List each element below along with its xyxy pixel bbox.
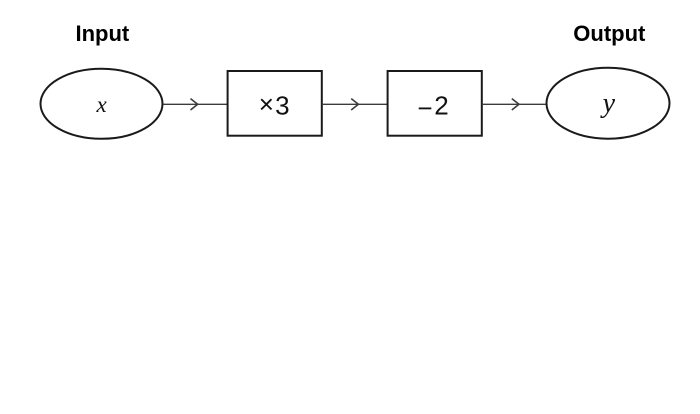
svg-text:3: 3 [275, 91, 289, 121]
svg-text:−: − [417, 93, 432, 123]
arrowhead 3 [512, 99, 519, 110]
svg-text:2: 2 [434, 91, 448, 121]
wire ellipse-x to box1 [164, 103, 228, 105]
svg-text:y: y [600, 88, 616, 119]
box multiply-by-3 [228, 71, 322, 136]
wire box2 to ellipse-y [482, 103, 546, 105]
wire box1 to box2 [322, 103, 388, 105]
svg-text:Output: Output [573, 21, 646, 46]
input ellipse x [41, 69, 163, 139]
svg-text:Input: Input [76, 21, 130, 46]
svg-text:x: x [95, 92, 107, 117]
box minus-2 [388, 71, 482, 136]
arrowhead 2 [351, 99, 358, 110]
svg-text:×: × [259, 89, 274, 119]
arrowhead 1 [191, 99, 198, 110]
output ellipse y [547, 68, 670, 139]
